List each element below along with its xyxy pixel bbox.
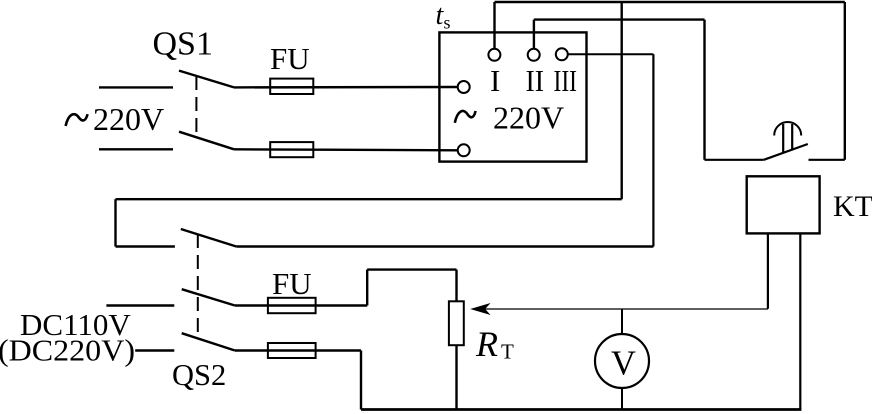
delay contact left stub (705, 159, 764, 161)
wire horizontal to rheostat top (367, 268, 456, 270)
wire KT left lead down (767, 233, 769, 308)
DC source stub upper (106, 304, 174, 306)
wire terminal III to right (568, 53, 654, 55)
DC source stub lower (135, 349, 174, 351)
relay KT box (747, 176, 820, 233)
switch QS2 linkage dashed (197, 234, 199, 339)
fuse FU3 (268, 298, 316, 313)
label ~220V AC supply tilde (66, 114, 88, 126)
wire QS2 pole1 to III vertical (236, 245, 653, 247)
wire horizontal to left above QS2 (116, 198, 622, 200)
terminal circle I (488, 49, 500, 61)
voltmeter top lead (621, 309, 623, 334)
wire QS1 pole2 to transformer terminal (234, 149, 458, 150)
fuse FU2 (270, 142, 313, 157)
wire terminal I up (493, 2, 495, 49)
wire vertical down to QS2 pole1 (114, 199, 116, 246)
svg-text:FU: FU (270, 41, 310, 76)
wire down to rheostat (455, 270, 457, 302)
delay contact blade (764, 144, 808, 160)
wire up from fuse FU3 (366, 270, 368, 306)
delay symbol bar right (791, 124, 793, 150)
wire KT right lead down to bottom rail (799, 233, 801, 409)
wire rheostat bottom to bottom rail (455, 345, 457, 409)
svg-text:V: V (611, 345, 636, 383)
terminal circle III (556, 48, 568, 60)
wire down from fuse FU4 to bottom rail (360, 351, 362, 410)
wire QS1 pole1 to transformer terminal (234, 86, 458, 89)
wire terminal II up (533, 20, 535, 49)
terminal circle II (528, 49, 540, 61)
wire vertical III down to QS2 pole1 right (652, 54, 654, 246)
bottom rail wire (361, 408, 801, 411)
svg-text:R: R (475, 324, 498, 364)
wire second rail terminal II to right (534, 18, 705, 20)
svg-text:FU: FU (272, 266, 312, 301)
rheostat wiper arrow wire (484, 308, 768, 310)
terminal circle input lower (458, 144, 470, 156)
svg-text:II: II (526, 63, 545, 98)
switch QS1 blade pole 2 (179, 132, 234, 150)
svg-text:220V: 220V (93, 101, 164, 137)
svg-text:s: s (444, 13, 451, 33)
voltmeter circle (595, 334, 649, 388)
svg-text:220V: 220V (493, 100, 564, 136)
svg-text:I: I (490, 63, 500, 98)
wire top rail terminal I to right (495, 1, 845, 3)
wire right vertical down to delay contact (844, 2, 846, 160)
delay symbol arc (774, 122, 801, 136)
svg-text:T: T (501, 340, 514, 364)
wire vertical down to delay contact left (703, 20, 705, 160)
terminal circle input upper (458, 81, 470, 93)
AC source terminal stub upper (99, 86, 173, 88)
label tilde inside box (455, 111, 476, 123)
delay contact right stub (809, 159, 845, 161)
switch QS2 pole1 left stub (116, 245, 175, 247)
switch QS2 pole2 blade (182, 289, 235, 305)
switch QS1 linkage dashed (195, 76, 197, 137)
svg-text:QS1: QS1 (153, 26, 213, 63)
wire branch from top rail down (621, 2, 623, 199)
delay symbol bar left (782, 124, 784, 153)
voltmeter bottom lead (621, 388, 623, 410)
rheostat wiper arrowhead (470, 303, 490, 315)
svg-text:QS2: QS2 (172, 358, 226, 392)
fuse FU1 (270, 79, 313, 94)
svg-text:III: III (554, 63, 578, 98)
AC source terminal stub lower (99, 148, 173, 150)
time switch box (439, 32, 586, 161)
svg-text:(DC220V): (DC220V) (0, 333, 135, 368)
switch QS2 pole1 blade (181, 229, 237, 247)
wire QS2 pole3 to corner (235, 349, 361, 351)
fuse FU4 (268, 343, 316, 358)
switch QS1 blade pole 1 (179, 71, 234, 88)
svg-text:KT: KT (833, 190, 872, 223)
wire QS2 pole2 to fuse FU3 (235, 304, 367, 306)
switch QS2 pole3 blade (182, 333, 235, 350)
resistor RT body (449, 301, 464, 345)
